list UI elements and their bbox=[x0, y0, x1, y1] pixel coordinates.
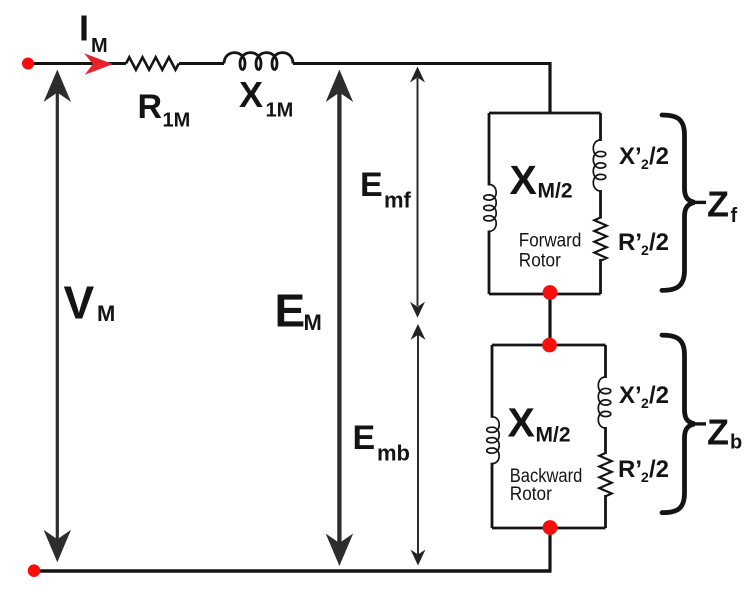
arrow EM (double-headed, thick) bbox=[326, 70, 354, 567]
label Emf bbox=[360, 166, 412, 213]
label X'2/2 forward bbox=[619, 143, 669, 172]
svg-text:V: V bbox=[64, 276, 95, 328]
forward rotor box right edge (lower) bbox=[599, 259, 602, 294]
label Backward Rotor bbox=[510, 466, 583, 505]
wire backward rotor to bottom rail bbox=[548, 527, 551, 571]
svg-text:Z: Z bbox=[707, 412, 729, 453]
inductor X'2/2 backward (right edge coil) bbox=[598, 377, 610, 428]
svg-text:b: b bbox=[730, 431, 742, 453]
svg-text:Rotor: Rotor bbox=[519, 251, 562, 272]
wire bottom rail bbox=[34, 569, 552, 573]
label Forward Rotor bbox=[519, 230, 582, 271]
svg-text:2: 2 bbox=[641, 242, 649, 258]
forward rotor box left edge (upper) bbox=[488, 113, 491, 186]
svg-text:X: X bbox=[510, 157, 537, 203]
svg-text:mb: mb bbox=[377, 440, 410, 465]
label Zb bbox=[707, 412, 742, 454]
resistor R'2/2 forward (right edge) bbox=[594, 218, 606, 261]
resistor R'2/2 backward (right edge) bbox=[599, 453, 611, 496]
svg-text:M: M bbox=[91, 35, 108, 57]
backward rotor box left edge (lower) bbox=[491, 463, 494, 528]
tick brace Zf to label bbox=[695, 201, 707, 204]
resistor R1M bbox=[126, 57, 179, 69]
svg-text:/2: /2 bbox=[649, 229, 669, 256]
svg-text:2: 2 bbox=[641, 469, 649, 485]
current arrow IM bbox=[84, 53, 113, 74]
svg-text:I: I bbox=[79, 8, 89, 49]
svg-text:M: M bbox=[304, 310, 322, 335]
svg-text:R: R bbox=[138, 88, 163, 126]
svg-text:E: E bbox=[275, 285, 306, 337]
node dot bottom-left bbox=[28, 564, 41, 577]
svg-text:1M: 1M bbox=[266, 100, 294, 122]
svg-text:E: E bbox=[360, 166, 383, 204]
brace Zf bbox=[662, 115, 695, 290]
svg-text:M/2: M/2 bbox=[538, 180, 573, 203]
svg-text:/2: /2 bbox=[649, 382, 669, 409]
backward rotor box left edge (upper) bbox=[491, 345, 494, 418]
backward rotor box bottom edge bbox=[492, 527, 606, 530]
forward rotor box bottom edge bbox=[489, 293, 601, 296]
label Emb bbox=[353, 419, 411, 465]
svg-text:X: X bbox=[239, 74, 263, 115]
backward rotor box right edge (upper) bbox=[604, 345, 607, 378]
arrow Emb (thin double-headed) bbox=[411, 324, 426, 566]
label EM bbox=[275, 285, 322, 337]
svg-text:X’: X’ bbox=[619, 382, 642, 409]
inductor X'2/2 forward (right edge coil) bbox=[593, 140, 605, 191]
node dot backward rotor top bbox=[542, 338, 557, 353]
arrow Emf (thin double-headed) bbox=[410, 67, 425, 318]
svg-text:R’: R’ bbox=[618, 229, 642, 256]
svg-text:mf: mf bbox=[384, 188, 412, 213]
svg-text:Rotor: Rotor bbox=[510, 484, 553, 505]
svg-text:2: 2 bbox=[641, 156, 649, 172]
node dot backward rotor bottom bbox=[543, 520, 558, 535]
brace Zb bbox=[662, 335, 695, 513]
svg-text:X’: X’ bbox=[619, 143, 642, 170]
label VM bbox=[64, 276, 116, 328]
svg-text:R’: R’ bbox=[618, 456, 642, 483]
svg-text:/2: /2 bbox=[649, 456, 669, 483]
label X1M bbox=[239, 74, 293, 122]
svg-text:Z: Z bbox=[707, 184, 729, 225]
label XM/2 forward bbox=[510, 157, 573, 203]
wire backward right edge middle bbox=[604, 427, 607, 454]
svg-text:M/2: M/2 bbox=[536, 423, 571, 446]
svg-text:2: 2 bbox=[641, 395, 649, 411]
svg-text:X: X bbox=[508, 400, 535, 446]
label R'2/2 backward bbox=[618, 456, 669, 485]
forward rotor box left edge (lower) bbox=[488, 231, 491, 295]
wire forward right edge middle bbox=[599, 190, 602, 219]
node dot forward rotor bottom bbox=[543, 285, 558, 300]
svg-text:E: E bbox=[353, 419, 376, 457]
label IM bbox=[79, 8, 108, 57]
node dot top-left bbox=[22, 58, 34, 70]
svg-text:f: f bbox=[731, 205, 738, 227]
wire forward to backward rotor bbox=[548, 292, 551, 346]
wire top rail bbox=[28, 62, 552, 65]
svg-text:Forward: Forward bbox=[519, 230, 582, 251]
tick brace Zb to label bbox=[695, 422, 707, 425]
svg-text:M: M bbox=[97, 301, 115, 326]
label X'2/2 backward bbox=[619, 382, 669, 411]
label Zf bbox=[707, 184, 738, 227]
forward rotor box top edge bbox=[489, 112, 601, 115]
wire right drop to forward rotor bbox=[548, 62, 551, 114]
inductor X1M bbox=[224, 53, 293, 70]
arrow VM (double-headed) bbox=[44, 70, 72, 563]
backward rotor box right edge (lower) bbox=[604, 495, 607, 528]
inductor XM/2 backward (left edge coil) bbox=[487, 417, 499, 464]
inductor XM/2 forward (left edge coil) bbox=[484, 185, 496, 232]
backward rotor box top edge bbox=[492, 344, 606, 347]
label R1M bbox=[138, 88, 191, 131]
svg-text:/2: /2 bbox=[649, 143, 669, 170]
forward rotor box right edge (upper) bbox=[599, 113, 602, 141]
svg-text:1M: 1M bbox=[163, 110, 191, 132]
label XM/2 backward bbox=[508, 400, 571, 447]
label R'2/2 forward bbox=[618, 229, 669, 258]
